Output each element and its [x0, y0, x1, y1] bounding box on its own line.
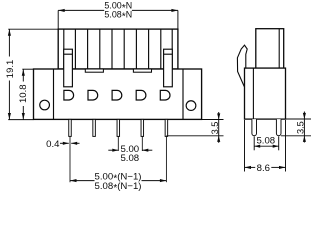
svg-text:10.8: 10.8 [18, 84, 29, 103]
side view: plug top section [256, 29, 284, 68]
front view: D-shaped contact opening 1 [64, 90, 74, 100]
label 10.8 [18, 84, 29, 103]
svg-text:5.08: 5.08 [256, 135, 275, 146]
label 5.00 pitch [120, 144, 139, 155]
front view: solder pin 3 [117, 119, 120, 136]
front view: left flange separator line [53, 69, 55, 119]
front view: solder pin 2 [93, 119, 96, 136]
svg-text:5.08: 5.08 [120, 153, 139, 164]
front view: right flange separator line [182, 69, 184, 119]
svg-text:0.4: 0.4 [46, 139, 60, 150]
extension line pin 4 center [141, 137, 143, 151]
dimension 5.00*N / 5.08*N top width [58, 9, 178, 29]
label 0.4 [46, 139, 60, 150]
front view: upper plug housing outline [58, 29, 178, 69]
label 5.00*N [104, 1, 132, 14]
extension line pin 1 center [69, 137, 71, 183]
side view: friction lock hook [237, 45, 247, 86]
dimension 8.6 body depth [245, 120, 286, 172]
front view: left latch bar [64, 49, 73, 87]
front view: left mounting hole [40, 100, 50, 110]
dimension 19.1 overall height [8, 29, 58, 119]
front view: polarization notch under position 2 [85, 69, 103, 72]
svg-text:3.5: 3.5 [210, 122, 220, 135]
front view: D-shaped contact opening 2 [88, 90, 98, 100]
front view: solder pin 4 [141, 119, 144, 136]
dimension 5.08 side pin spacing [254, 136, 279, 150]
label 3.5 front [210, 122, 220, 135]
side view: base body [245, 68, 286, 119]
extension line pin 5 center [165, 137, 167, 183]
front view: right latch bar [164, 49, 173, 87]
dimension 5.00 / 5.08 pitch [108, 149, 152, 152]
label 8.6 [257, 163, 270, 174]
svg-text:3.5: 3.5 [295, 121, 305, 134]
front view: D-shaped contact opening 4 [136, 90, 146, 100]
side view: solder pin rear [276, 119, 281, 136]
label 3.5 side [295, 121, 305, 134]
label 5.08 side [256, 135, 275, 146]
dimension 3.5 side pin length [281, 112, 311, 143]
dimension 10.8 body height [22, 69, 34, 119]
side view: solder pin front [252, 119, 257, 136]
extension line pin 3 center [117, 137, 119, 151]
dimension 0.4 pin thickness [60, 142, 80, 145]
front view: right mounting hole [186, 101, 196, 111]
svg-text:8.6: 8.6 [257, 163, 270, 174]
front view: solder pin 1 [69, 119, 72, 136]
label 5.08*(N-1) [95, 181, 142, 194]
front view: D-shaped contact opening 3 [112, 90, 122, 100]
label 5.08*N [104, 10, 132, 23]
dimension 5.00*(N-1) / 5.08*(N-1) span [70, 179, 166, 182]
svg-text:19.1: 19.1 [5, 60, 16, 79]
label 19.1 [5, 60, 16, 79]
front view: polarization notch under position 4 [133, 69, 151, 72]
front view: D-shaped contact opening 5 [160, 90, 170, 100]
label 5.00*(N-1) [95, 172, 142, 185]
front view: wafer rib lines [64, 29, 172, 69]
front view: solder pin 5 [165, 119, 168, 136]
dimension 3.5 front pin length [166, 112, 223, 143]
label 5.08 pitch [120, 153, 139, 164]
front view: lower terminal body [34, 69, 202, 119]
